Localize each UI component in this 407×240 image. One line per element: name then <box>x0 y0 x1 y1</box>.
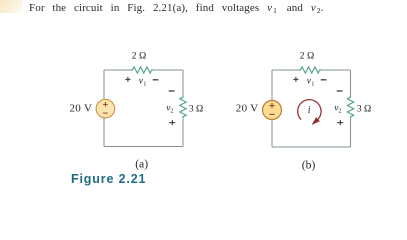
svg-text:3 Ω: 3 Ω <box>189 104 204 115</box>
svg-text:2 Ω: 2 Ω <box>132 50 147 61</box>
svg-text:i: i <box>308 105 311 116</box>
svg-text:2: 2 <box>170 108 173 115</box>
svg-text:1: 1 <box>311 81 314 88</box>
svg-text:(b): (b) <box>302 158 316 171</box>
svg-text:20 V: 20 V <box>70 102 93 114</box>
svg-text:(a): (a) <box>135 157 148 170</box>
svg-text:1: 1 <box>143 81 146 88</box>
svg-text:2 Ω: 2 Ω <box>300 50 315 61</box>
svg-text:20 V: 20 V <box>236 102 259 114</box>
svg-text:3 Ω: 3 Ω <box>357 104 372 115</box>
svg-text:2: 2 <box>338 108 341 115</box>
